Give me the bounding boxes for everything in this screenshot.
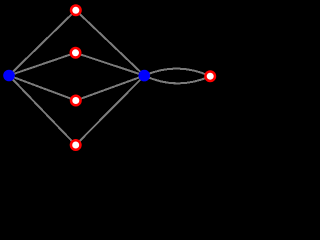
node r5 (red/white, right) xyxy=(204,70,216,82)
wire v2-r1 xyxy=(76,10,145,75)
wire v1-r2 xyxy=(9,53,76,76)
node v1 (blue, left) xyxy=(3,70,15,82)
wire v2-r4 xyxy=(76,76,145,145)
wire v2-r5 upper curve xyxy=(144,69,210,77)
node r4 (red/white, bottom) xyxy=(70,139,82,151)
wire v1-r3 xyxy=(9,76,76,101)
wire v1-r4 xyxy=(9,76,76,146)
wire v2-r2 xyxy=(76,53,145,76)
wire v1-r1 xyxy=(9,10,76,75)
wire v2-r5 lower curve xyxy=(144,76,210,84)
node v2 (blue, middle) xyxy=(139,70,151,82)
node r2 (red/white, upper middle) xyxy=(70,47,82,59)
node r1 (red/white, top) xyxy=(70,4,82,16)
node r3 (red/white, lower middle) xyxy=(70,95,82,107)
wire v2-r3 xyxy=(76,76,145,101)
